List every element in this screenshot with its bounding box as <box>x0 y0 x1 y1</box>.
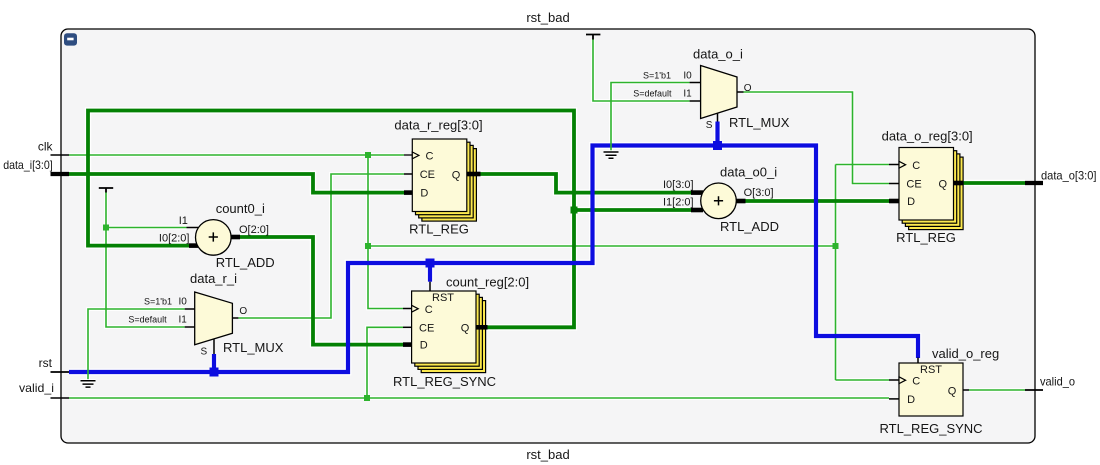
port rst <box>51 371 70 373</box>
svg-text:data_o[3:0]: data_o[3:0] <box>1041 168 1097 182</box>
svg-text:I1: I1 <box>683 89 692 100</box>
svg-text:S=default: S=default <box>128 315 167 325</box>
wire data_o_i O to data_o_reg CE (casing) <box>744 92 890 184</box>
svg-text:I1[2:0]: I1[2:0] <box>663 197 694 209</box>
wire valid_o_reg Q to valid_o port (casing) <box>969 388 1025 392</box>
svg-text:RTL_REG: RTL_REG <box>896 230 956 245</box>
register count_reg[2:0] RTL_REG_SYNC <box>393 275 529 390</box>
wire valid_i branch to count_reg CE (casing) <box>367 327 403 398</box>
wire rst stub to data_r_i S (casing) <box>211 354 218 372</box>
svg-text:RST: RST <box>432 292 454 304</box>
wire count bus branch to data_o0_i I1 (casing) <box>574 207 691 213</box>
junction const1 branch <box>103 225 109 231</box>
ground symbol data_o_i I0 <box>604 152 619 158</box>
constant symbol top <box>586 35 600 40</box>
svg-text:RTL_ADD: RTL_ADD <box>720 219 779 234</box>
junction valid_i branch <box>364 395 370 401</box>
wire valid_i branch to count_reg CE <box>367 327 403 398</box>
svg-text:O: O <box>239 306 247 317</box>
wire data_o_i I0 to ground (casing) <box>611 83 690 153</box>
wire rst stub to count_reg RST <box>428 263 432 282</box>
svg-text:C: C <box>912 160 920 172</box>
wire const1 left net <box>106 192 185 327</box>
adder count0_i RTL_ADD <box>159 201 275 270</box>
svg-text:data_r_reg[3:0]: data_r_reg[3:0] <box>394 118 482 133</box>
svg-text:D: D <box>420 187 428 199</box>
junction clk at data_r_reg C <box>365 152 371 158</box>
wire rst blue net <box>69 146 918 373</box>
svg-text:C: C <box>426 150 434 162</box>
svg-text:data_i[3:0]: data_i[3:0] <box>3 158 53 172</box>
wire clk branch horizontal to right column (casing) <box>368 244 836 248</box>
svg-text:D: D <box>907 394 915 406</box>
svg-text:rst_bad: rst_bad <box>526 447 569 462</box>
wire data_r_i I0 to ground <box>88 309 185 381</box>
wire data_r_i I0 to ground (casing) <box>88 309 185 381</box>
svg-text:S: S <box>706 120 713 131</box>
svg-text:C: C <box>425 304 433 316</box>
wire data_o0_i O to data_o_reg D <box>746 199 890 203</box>
svg-text:RTL_MUX: RTL_MUX <box>223 340 284 355</box>
junction rst at data_r_i S <box>210 368 219 377</box>
wire valid_o_reg Q to valid_o port <box>969 389 1025 391</box>
wire const1 branch to count0_i I1 (casing) <box>106 226 187 230</box>
constant symbol left <box>99 188 113 193</box>
register data_r_reg[3:0] RTL_REG <box>394 118 482 237</box>
wire const1 branch to count0_i I1 <box>106 227 187 229</box>
wire data_o_i I0 to ground <box>611 83 690 153</box>
wire clk to valid_o_reg C (casing) <box>836 378 890 382</box>
wire rst stub to data_o_i S (casing) <box>714 122 721 146</box>
wire clk branch horizontal to right column <box>368 245 836 247</box>
wire clk to data_o_reg C <box>836 164 890 166</box>
wire valid_i net (casing) <box>69 396 889 400</box>
wire data_r_reg Q bus to data_o0_i I0 (casing) <box>481 174 692 193</box>
svg-text:S=default: S=default <box>633 89 672 99</box>
svg-text:CE: CE <box>419 322 434 334</box>
svg-text:O[3:0]: O[3:0] <box>744 187 774 199</box>
wire clk net horizontal <box>69 154 404 156</box>
svg-text:Q: Q <box>939 178 948 190</box>
wire clk net horizontal (casing) <box>69 153 404 157</box>
svg-text:RTL_ADD: RTL_ADD <box>216 255 275 270</box>
svg-text:data_r_i: data_r_i <box>190 271 237 286</box>
wire count bus count_reg Q loop <box>88 111 574 328</box>
svg-text:RTL_MUX: RTL_MUX <box>729 115 790 130</box>
svg-text:rst: rst <box>39 356 53 370</box>
wire rst stub to data_o_i S <box>715 122 719 146</box>
svg-text:CE: CE <box>420 169 435 181</box>
svg-text:CE: CE <box>906 178 921 190</box>
register valid_o_reg RTL_REG_SYNC <box>880 346 1000 436</box>
wire count bus branch to data_o0_i I1 <box>574 208 691 212</box>
svg-text:valid_i: valid_i <box>19 381 54 395</box>
junction count bus to I1 <box>571 207 578 214</box>
wire clk right column vertical <box>835 165 837 381</box>
port valid_o <box>1025 389 1043 391</box>
svg-text:RTL_REG_SYNC: RTL_REG_SYNC <box>393 374 496 389</box>
wire rst stub to data_r_i S <box>212 354 216 372</box>
wire valid_i net <box>69 397 889 399</box>
junction clk branch right <box>365 243 371 249</box>
svg-text:rst_bad: rst_bad <box>526 10 569 25</box>
wire const1 left net (casing) <box>106 192 185 327</box>
wire data_o_reg Q to data_o port (casing) <box>963 180 1026 186</box>
svg-text:D: D <box>420 340 428 352</box>
adder data_o0_i RTL_ADD <box>663 164 779 234</box>
wire rst blue net (casing) <box>69 146 918 373</box>
svg-text:valid_o: valid_o <box>1040 375 1075 389</box>
svg-text:RST: RST <box>920 364 942 376</box>
svg-text:I0[3:0]: I0[3:0] <box>663 179 694 191</box>
wire clk to valid_o_reg C <box>836 379 890 381</box>
svg-text:count_reg[2:0]: count_reg[2:0] <box>446 275 529 290</box>
svg-text:I0: I0 <box>683 71 692 82</box>
port clk <box>51 154 70 156</box>
collapse minus button <box>64 33 77 45</box>
svg-text:S: S <box>201 347 208 358</box>
wire data_i bus (casing) <box>69 174 404 193</box>
wire data_o0_i O to data_o_reg D (casing) <box>746 198 890 204</box>
register data_o_reg[3:0] RTL_REG <box>882 129 973 245</box>
svg-text:RTL_REG_SYNC: RTL_REG_SYNC <box>880 421 983 436</box>
svg-text:Q: Q <box>452 169 461 181</box>
svg-text:D: D <box>907 196 915 208</box>
svg-text:Q: Q <box>461 322 470 334</box>
svg-text:RTL_REG: RTL_REG <box>409 222 469 237</box>
junction rst at count_reg RST <box>426 259 435 268</box>
mux data_r_i RTL_MUX <box>128 271 283 358</box>
wire count bus count_reg Q loop (casing) <box>88 111 574 328</box>
svg-text:count0_i: count0_i <box>216 201 265 216</box>
mux data_o_i RTL_MUX <box>633 47 790 131</box>
svg-text:valid_o_reg: valid_o_reg <box>932 346 999 361</box>
ground symbol data_r_i I0 <box>81 381 96 387</box>
junction rst at data_o_i S <box>713 141 722 150</box>
wire clk branch vertical to count_reg C (casing) <box>368 155 403 309</box>
wire count0_i O to count_reg D (casing) <box>240 237 403 345</box>
svg-text:S=1'b1: S=1'b1 <box>144 297 172 307</box>
schematic sheet background <box>61 29 1035 443</box>
port data_o[3:0] <box>1025 181 1043 185</box>
svg-text:I1: I1 <box>179 215 188 227</box>
svg-text:data_o_reg[3:0]: data_o_reg[3:0] <box>882 129 973 144</box>
svg-text:S=1'b1: S=1'b1 <box>643 70 671 80</box>
svg-text:O[2:0]: O[2:0] <box>239 224 269 236</box>
svg-text:C: C <box>912 375 920 387</box>
wire data_r_i O to data_r_reg CE (casing) <box>238 174 404 318</box>
wire data_o_i I1 from const (casing) <box>593 39 690 101</box>
wire clk right column vertical (casing) <box>834 165 838 381</box>
svg-text:I0[2:0]: I0[2:0] <box>159 233 190 245</box>
junction clk right column <box>833 243 839 249</box>
svg-text:I0: I0 <box>179 297 188 308</box>
wire clk branch vertical to count_reg C <box>368 155 403 309</box>
wire data_o_reg Q to data_o port <box>963 181 1026 185</box>
wire data_r_i O to data_r_reg CE <box>238 174 404 318</box>
wire count0_i O to count_reg D <box>240 237 403 345</box>
wire data_r_reg Q bus to data_o0_i I0 <box>481 174 692 193</box>
svg-text:data_o_i: data_o_i <box>693 47 743 62</box>
wire clk to data_o_reg C (casing) <box>836 163 890 167</box>
svg-text:data_o0_i: data_o0_i <box>720 164 777 179</box>
wire data_o_i I1 from const <box>593 39 690 101</box>
svg-text:Q: Q <box>948 385 957 397</box>
port valid_i <box>51 397 70 399</box>
wire data_i bus <box>69 174 404 193</box>
svg-text:I1: I1 <box>179 315 188 326</box>
svg-text:O: O <box>744 83 752 94</box>
wire rst stub to count_reg RST (casing) <box>427 263 434 282</box>
svg-text:clk: clk <box>38 140 54 154</box>
PORT STUBS <box>51 155 1044 398</box>
wire data_o_i O to data_o_reg CE <box>744 92 890 184</box>
port data_i[3:0] <box>51 172 70 176</box>
